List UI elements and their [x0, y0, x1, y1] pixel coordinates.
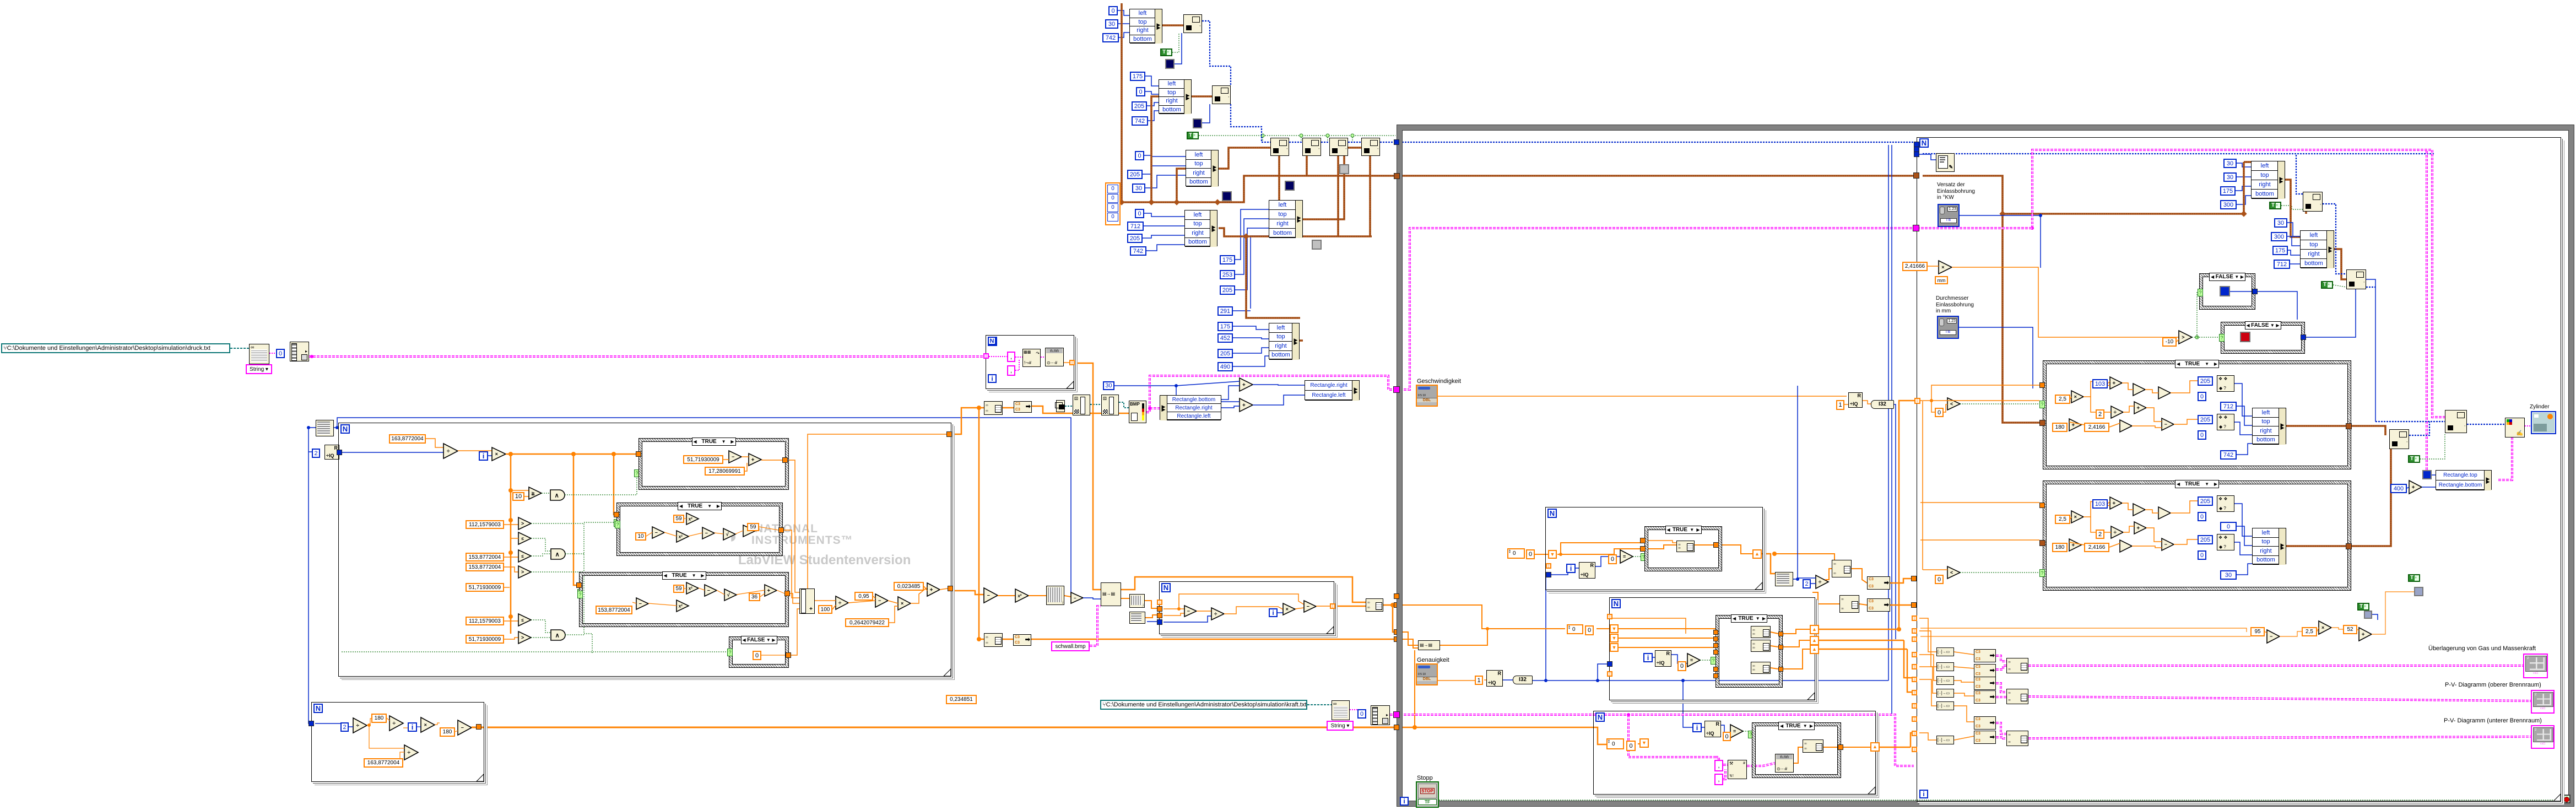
svg-text:x²: x² — [1018, 593, 1021, 598]
svg-text:−: − — [1074, 596, 1076, 601]
svg-text:+: + — [1242, 403, 1246, 409]
svg-text:+: + — [1242, 382, 1246, 388]
svg-text:−: − — [987, 593, 990, 598]
